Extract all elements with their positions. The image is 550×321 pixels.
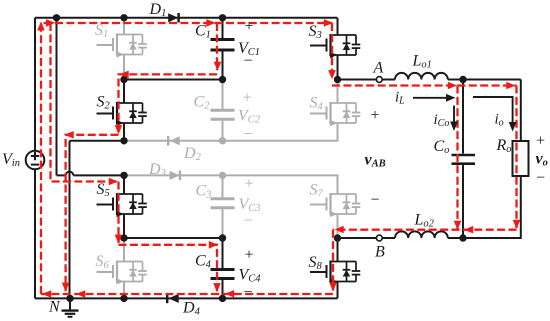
source Vin <box>26 151 45 170</box>
svg-text:B: B <box>375 244 385 261</box>
transistor S5 <box>97 193 147 217</box>
wire C3 stems (grey) <box>222 175 224 238</box>
red arrow down into C1 <box>214 62 222 71</box>
wire S6 drain stem (grey) <box>123 238 125 262</box>
wire right rail upper (to Ro top) <box>520 80 522 142</box>
transistor S7 <box>310 193 360 217</box>
wire top rail <box>35 17 338 19</box>
wire red path: branch to S5 <box>51 23 118 182</box>
transistor S4 <box>310 102 360 126</box>
resistor Ro <box>513 141 529 176</box>
wire node A to Lo1 <box>338 79 396 81</box>
red arrow right before Ro corner <box>506 82 515 90</box>
wire red path: branch down through C1 <box>216 23 218 70</box>
transistor S8 <box>310 261 360 285</box>
red arrow down at node A <box>328 70 336 79</box>
svg-text:−: − <box>243 126 254 143</box>
wire y175 right segment D3 to S7 drain (grey) <box>124 175 338 194</box>
wire node B to Lo2 <box>338 237 396 239</box>
wire red path: Vin+ up left loop <box>41 23 332 294</box>
wire S6 source stem (grey) <box>123 282 125 299</box>
red arrow right before C1 <box>206 19 215 27</box>
wire C4 stems <box>222 238 224 298</box>
wire Lo1 to output node <box>448 79 521 81</box>
diode D1 <box>168 13 178 23</box>
junction dots (black) <box>53 14 467 302</box>
capacitor C2 (grey) <box>211 110 235 119</box>
wire S5 source stem <box>123 214 125 238</box>
wire bottom rail N <box>35 297 338 299</box>
svg-text:+: + <box>370 107 381 124</box>
red arrow right at top-left corner <box>46 19 55 27</box>
svg-text:N: N <box>48 299 61 316</box>
wire S7 source stem (grey) <box>337 214 339 238</box>
node A terminal circle <box>376 77 382 83</box>
wire x69.5 vertical from S2-source net down to bottom rail <box>69 141 71 299</box>
diode D3 (grey) <box>170 171 180 181</box>
svg-text:+: + <box>244 176 255 193</box>
wire second rail x56 from top rail down to y175 wire <box>56 18 58 176</box>
wire S1 drain stem (grey) <box>123 18 125 35</box>
wire right rail lower (Ro bottom to output bottom node) <box>463 176 521 238</box>
black current arrow iCo <box>450 106 458 132</box>
svg-text:−: − <box>535 170 546 187</box>
wire red path: S2 to x65.6 down <box>66 135 119 291</box>
red arrow left at bottom-left corner <box>42 290 51 298</box>
red arrow down after S5 <box>115 235 123 244</box>
red arrow right into C4 drop <box>209 241 218 249</box>
wire red path: down through Ro <box>515 86 517 229</box>
inductor Lo1 <box>395 73 448 80</box>
wire red path: through S5 down to y245 <box>117 182 119 244</box>
red arrow left on y135 wire <box>65 131 74 139</box>
svg-text:−: − <box>243 284 254 301</box>
red arrow right at S3 corner <box>324 19 333 27</box>
wire Lo2 to output bottom node <box>448 237 463 239</box>
red arrow left on bottom rail right of C4 <box>225 290 234 298</box>
wire C1 stems <box>222 18 224 80</box>
wire red path: S5 to C4 <box>119 245 218 292</box>
diode D2 (grey) <box>168 136 180 146</box>
red arrow down after S2 <box>115 125 123 134</box>
ground <box>62 298 79 316</box>
wire S2 drain stem <box>123 80 125 104</box>
wire S2 source stem <box>123 123 125 141</box>
wire S3 source stem to node A <box>337 55 339 80</box>
wire red path: down through S8 <box>332 230 334 291</box>
red arrow down at x65.6 bottom <box>62 283 70 292</box>
red arrow down Ro branch bottom <box>513 220 521 229</box>
svg-text:+: + <box>535 133 546 150</box>
wire Co column <box>462 80 464 239</box>
capacitor C3 (grey) <box>211 199 235 208</box>
wire y141 left segment (S2 source to x69.5 corner) <box>70 140 125 142</box>
capacitor C1 <box>211 40 235 51</box>
red arrow left at S8 corner <box>335 226 344 234</box>
black current arrow iL <box>413 94 456 102</box>
node B terminal circle <box>376 235 382 241</box>
wire S4 drain stem (grey) <box>337 80 339 104</box>
red arrow left on bottom near x65 merge <box>76 290 85 298</box>
red arrow down after C4 <box>213 283 221 292</box>
wire red path: output bottom back to S8 <box>333 229 517 231</box>
capacitor C4 <box>211 270 235 279</box>
wire red path: node A level to right <box>332 84 517 86</box>
svg-text:+: + <box>244 18 255 35</box>
wire red path: through S3 down to node A level <box>331 23 333 79</box>
red arrow up at Vin <box>37 21 45 30</box>
wire S1 source stem (grey) <box>123 55 125 80</box>
red arrow down Co branch bottom <box>454 221 462 230</box>
transistor S3 <box>310 34 360 58</box>
wire S8 source stem to bottom rail corner <box>337 282 339 299</box>
wire y141 right segment D2 to S4 source (grey) <box>124 123 338 141</box>
svg-text:−: − <box>243 53 254 70</box>
wire C2 stems (grey) <box>222 80 224 141</box>
wire y175 left segment with hop over x69.5 wire <box>57 174 125 176</box>
wire red path: C1 to S2 <box>119 74 218 133</box>
svg-text:A: A <box>373 60 384 77</box>
black current arrow io <box>473 97 517 132</box>
transistor S2 <box>97 102 147 126</box>
wire S5 drain stem <box>123 175 125 194</box>
diode D4 <box>167 294 179 304</box>
transistor S6 <box>97 261 147 285</box>
transistor S1 <box>97 34 147 58</box>
svg-text:−: − <box>243 213 254 230</box>
wire y238 mid (S5 source to C4 top) <box>124 237 223 239</box>
red arrow right into S5 <box>109 178 118 186</box>
red arrow down after S8 <box>329 282 337 291</box>
wire S8 drain stem from node B <box>337 238 339 262</box>
red arrow left on y230 return <box>464 226 473 234</box>
junction dots (grey) <box>219 137 226 179</box>
capacitor Co <box>452 155 476 164</box>
red arrow left on y74 wire <box>120 71 129 79</box>
wire red path: bottom return to Vin- <box>41 293 333 295</box>
inductor Lo2 <box>395 231 448 238</box>
svg-text:+: + <box>244 247 255 264</box>
svg-text:+: + <box>242 90 253 107</box>
wire y79 mid (C1 bottom to S1/S2 midpoint) <box>124 79 223 81</box>
red arrow right before Co branch <box>448 82 457 90</box>
svg-text:−: − <box>370 192 381 209</box>
wire left rail (Vin branch) <box>34 18 36 299</box>
wire S3 drain stem from top rail corner <box>337 18 339 35</box>
wire red path: down through Co <box>456 86 458 230</box>
